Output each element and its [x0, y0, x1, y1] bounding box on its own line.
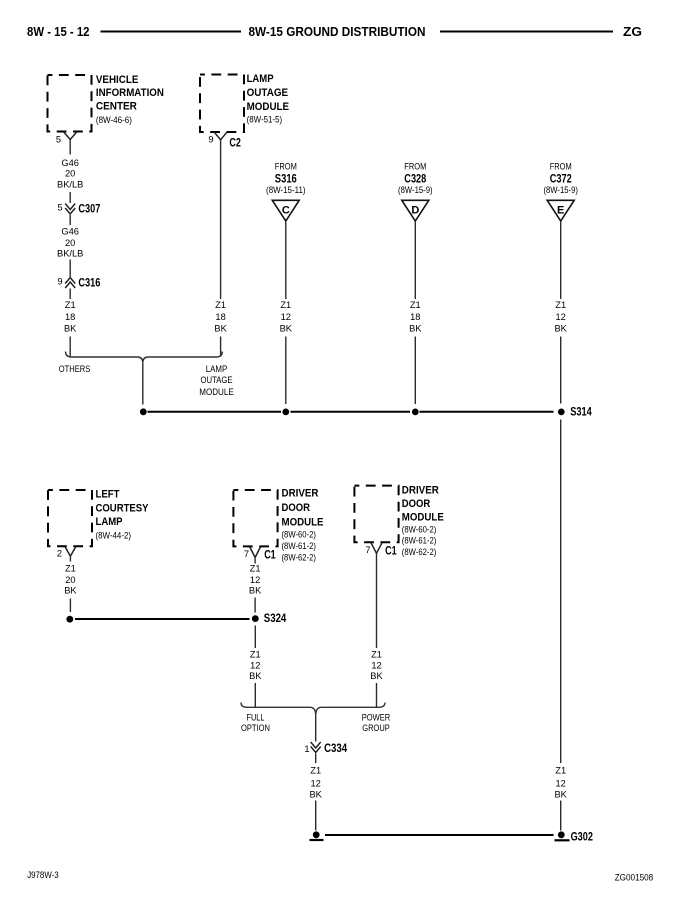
wire label G46 20 BK/LB: [57, 227, 83, 259]
wire: [315, 754, 317, 764]
svg-text:Z1: Z1: [280, 300, 291, 310]
svg-text:12: 12: [250, 575, 260, 585]
svg-text:BK: BK: [370, 671, 383, 681]
svg-text:(8W-61-2): (8W-61-2): [282, 541, 317, 552]
svg-text:OPTION: OPTION: [241, 723, 270, 733]
svg-text:MODULE: MODULE: [402, 512, 444, 524]
wire col DDM2: [376, 553, 378, 648]
wire: [69, 140, 71, 155]
wire: [254, 558, 256, 564]
svg-text:Z1: Z1: [250, 650, 261, 660]
svg-text:20: 20: [65, 169, 75, 179]
svg-text:S314: S314: [570, 405, 592, 419]
svg-text:18: 18: [215, 312, 225, 322]
off-page reference FROM C328: [398, 161, 433, 196]
svg-text:Z1: Z1: [65, 300, 76, 310]
svg-text:1: 1: [304, 744, 309, 754]
svg-text:DRIVER: DRIVER: [282, 488, 319, 500]
svg-text:Z1: Z1: [65, 564, 76, 574]
svg-text:12: 12: [371, 660, 381, 670]
wire: [220, 337, 222, 357]
svg-text:(8W-62-2): (8W-62-2): [282, 553, 317, 564]
inline connector C307: [57, 202, 100, 216]
wire: [315, 801, 317, 831]
svg-text:BK: BK: [64, 586, 77, 596]
svg-text:(8W-51-5): (8W-51-5): [247, 115, 283, 126]
triangle E: [547, 200, 574, 221]
svg-text:(8W-15-9): (8W-15-9): [543, 185, 578, 196]
wire: [376, 683, 378, 707]
wire label Z1 20 BK: [64, 564, 77, 596]
svg-text:LEFT: LEFT: [96, 488, 120, 500]
svg-text:C328: C328: [404, 171, 426, 185]
wire below S324: [254, 626, 256, 649]
svg-text:MODULE: MODULE: [282, 516, 324, 528]
wire label Z1 12 BK: [249, 564, 262, 596]
svg-text:GROUP: GROUP: [362, 723, 390, 733]
svg-text:VEHICLE: VEHICLE: [96, 74, 138, 86]
wire: [69, 556, 71, 561]
junction dot S324: [252, 615, 259, 622]
svg-text:12: 12: [250, 660, 260, 670]
svg-text:OUTAGE: OUTAGE: [247, 87, 289, 99]
inline connector C334: [304, 741, 347, 755]
label driver door module 2: [402, 484, 444, 558]
svg-text:FULL: FULL: [247, 712, 265, 722]
wire label G46 20 BK/LB: [57, 158, 83, 190]
wire col5 long run below S314: [560, 420, 562, 764]
svg-text:LAMP: LAMP: [247, 73, 274, 85]
svg-text:BK: BK: [554, 790, 567, 800]
svg-text:D: D: [411, 204, 419, 216]
wire col5: [560, 221, 562, 299]
wire label Z1 12 BK: [370, 650, 383, 682]
junction dot left courtesy lamp: [66, 616, 73, 623]
ground bus G302: [325, 834, 554, 836]
wire label Z1 12 BK col5: [554, 300, 567, 333]
header rule right: [440, 31, 613, 33]
svg-text:INFORMATION: INFORMATION: [96, 87, 164, 99]
svg-text:BK: BK: [249, 586, 262, 596]
component box: lamp outage module: [200, 75, 244, 133]
svg-text:BK: BK: [554, 324, 567, 334]
wire label Z1 12 BK col3: [280, 300, 293, 333]
wire: [69, 599, 71, 613]
svg-text:C2: C2: [229, 136, 241, 150]
wire: [69, 260, 71, 278]
off-page reference FROM C372: [543, 161, 578, 196]
ground bus S314: [148, 411, 282, 413]
svg-text:18: 18: [65, 312, 75, 322]
svg-text:BK: BK: [409, 324, 422, 334]
svg-text:12: 12: [556, 778, 566, 788]
label LAMP OUTAGE MODULE: [199, 364, 234, 397]
pin 7 connector C1 at driver door module 1: [244, 547, 276, 562]
wire: [69, 215, 71, 225]
svg-text:S324: S324: [264, 611, 287, 625]
svg-text:ZG001508: ZG001508: [615, 873, 654, 883]
svg-text:C372: C372: [550, 171, 572, 185]
wire: [69, 337, 71, 357]
svg-text:C307: C307: [78, 202, 100, 216]
wire label Z1 18 BK col2: [214, 300, 227, 333]
label lamp outage module: [247, 73, 290, 125]
svg-text:BK/LB: BK/LB: [57, 179, 83, 189]
svg-text:BK: BK: [309, 790, 322, 800]
pin 5 connector Y at vehicle information center: [64, 132, 77, 140]
svg-text:C316: C316: [78, 276, 100, 290]
inline connector C316: [57, 276, 100, 290]
label left courtesy lamp: [96, 488, 150, 541]
wire: [560, 337, 562, 404]
off-page reference FROM S316: [266, 161, 306, 196]
component box: driver door module 1: [233, 490, 277, 546]
wire label Z1 12 BK col5 bottom: [554, 765, 567, 799]
pin 9 connector C2 at lamp outage module: [208, 132, 241, 149]
svg-text:(8W-61-2): (8W-61-2): [402, 536, 437, 547]
svg-text:12: 12: [281, 312, 291, 322]
junction dot S314: [558, 409, 565, 416]
wire: [285, 337, 287, 405]
wire: [414, 337, 416, 405]
svg-text:MODULE: MODULE: [247, 101, 290, 113]
svg-text:FROM: FROM: [275, 161, 297, 171]
svg-text:DOOR: DOOR: [402, 498, 431, 510]
svg-text:(8W-46-6): (8W-46-6): [96, 115, 132, 126]
wire label Z1 12 BK: [249, 650, 262, 682]
header rule left: [101, 31, 242, 33]
svg-text:CENTER: CENTER: [96, 101, 137, 113]
svg-text:(8W-15-11): (8W-15-11): [266, 185, 306, 196]
splice brace lower: [241, 703, 385, 716]
wire: [254, 598, 256, 613]
pin 2 connector Y at left courtesy lamp: [57, 547, 76, 559]
ground symbol G302: [555, 831, 570, 840]
wire label Z1 12 BK: [309, 765, 322, 799]
svg-text:C1: C1: [264, 548, 276, 562]
svg-text:7: 7: [365, 545, 370, 555]
wire label Z1 18 BK col4: [409, 300, 422, 333]
svg-text:8W - 15 - 12: 8W - 15 - 12: [27, 24, 90, 39]
svg-text:DRIVER: DRIVER: [402, 484, 439, 496]
svg-text:BK: BK: [249, 671, 262, 681]
svg-text:(8W-15-9): (8W-15-9): [398, 185, 433, 196]
svg-text:5: 5: [56, 135, 61, 145]
svg-text:Z1: Z1: [555, 765, 566, 775]
svg-text:BK: BK: [214, 324, 227, 334]
svg-text:Z1: Z1: [371, 650, 382, 660]
svg-text:(8W-60-2): (8W-60-2): [402, 524, 437, 535]
svg-text:POWER: POWER: [362, 712, 391, 722]
svg-text:BK/LB: BK/LB: [57, 249, 83, 259]
svg-text:(8W-62-2): (8W-62-2): [402, 547, 437, 558]
triangle C: [272, 200, 299, 221]
triangle D: [402, 200, 429, 221]
wire: [254, 683, 256, 707]
wire horizontal to S324: [75, 618, 250, 620]
junction dot: [140, 408, 147, 415]
label POWER GROUP: [362, 712, 391, 733]
svg-text:MODULE: MODULE: [199, 387, 234, 397]
junction dot: [282, 409, 289, 416]
svg-text:G46: G46: [61, 227, 79, 237]
label vehicle information center: [96, 74, 164, 126]
wire: [560, 801, 562, 831]
wire col4: [414, 221, 416, 299]
svg-text:12: 12: [556, 312, 566, 322]
junction dot: [412, 409, 419, 416]
svg-text:C334: C334: [324, 741, 347, 755]
svg-text:G46: G46: [61, 158, 79, 168]
svg-text:20: 20: [65, 575, 75, 585]
svg-text:Z1: Z1: [250, 564, 261, 574]
svg-text:FROM: FROM: [404, 161, 426, 171]
svg-text:LAMP: LAMP: [206, 364, 228, 374]
svg-text:20: 20: [65, 238, 75, 248]
svg-text:G302: G302: [571, 829, 594, 843]
svg-text:(8W-60-2): (8W-60-2): [282, 530, 317, 541]
svg-text:(8W-44-2): (8W-44-2): [96, 531, 132, 542]
svg-text:BK: BK: [280, 324, 293, 334]
svg-text:2: 2: [57, 549, 62, 559]
svg-text:18: 18: [410, 312, 420, 322]
svg-text:LAMP: LAMP: [96, 516, 123, 528]
wire from brace cusp to bus: [142, 363, 144, 405]
label driver door module 1: [282, 488, 324, 564]
svg-text:Z1: Z1: [410, 300, 421, 310]
component box: vehicle information center: [48, 75, 92, 132]
svg-text:12: 12: [311, 778, 321, 788]
wire col3: [285, 221, 287, 299]
svg-text:C: C: [282, 204, 290, 216]
wire from lower brace cusp: [315, 716, 317, 742]
ground symbol left: [310, 831, 324, 840]
svg-text:E: E: [557, 204, 564, 216]
component box: left courtesy lamp: [48, 490, 92, 546]
wire label Z1 18 BK col1: [64, 300, 77, 333]
svg-text:BK: BK: [64, 324, 77, 334]
pin 7 connector C1 at driver door module 2: [365, 543, 397, 558]
svg-text:8W-15 GROUND DISTRIBUTION: 8W-15 GROUND DISTRIBUTION: [249, 24, 426, 39]
svg-text:7: 7: [244, 549, 249, 559]
svg-text:OUTAGE: OUTAGE: [201, 375, 233, 385]
wire col2: [220, 140, 222, 299]
wire: [69, 192, 71, 203]
splice brace upper: [66, 352, 223, 363]
svg-text:S316: S316: [275, 171, 297, 185]
wire: [69, 289, 71, 300]
svg-text:9: 9: [208, 135, 213, 145]
svg-text:J978W-3: J978W-3: [27, 870, 59, 880]
svg-text:C1: C1: [385, 544, 397, 558]
component box: driver door module 2: [354, 486, 398, 543]
svg-text:OTHERS: OTHERS: [59, 364, 91, 374]
svg-text:9: 9: [57, 277, 62, 287]
svg-text:Z1: Z1: [215, 300, 226, 310]
svg-text:Z1: Z1: [310, 765, 321, 775]
svg-text:5: 5: [57, 203, 62, 213]
svg-text:COURTESY: COURTESY: [96, 502, 150, 514]
svg-text:Z1: Z1: [555, 300, 566, 310]
svg-text:FROM: FROM: [550, 161, 572, 171]
svg-text:DOOR: DOOR: [282, 502, 311, 514]
svg-text:ZG: ZG: [623, 24, 642, 39]
label FULL OPTION: [241, 712, 270, 733]
